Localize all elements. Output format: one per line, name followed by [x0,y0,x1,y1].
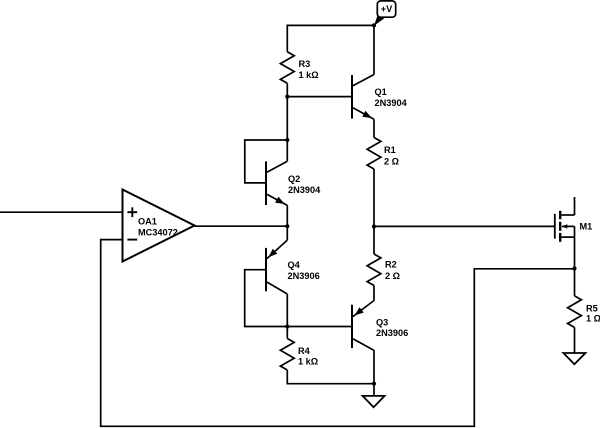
wire R5 bottom to ground symbol [574,327,576,353]
wire top rail from +V node to R3 [287,25,374,51]
svg-text:2N3904: 2N3904 [288,185,321,195]
svg-text:R1: R1 [384,145,396,155]
wire Q2 base-collector loop [245,140,287,183]
wire node D to R5 [574,269,576,296]
resistor R4 1 kOhm [280,339,318,371]
wire input to op-amp + [0,211,123,213]
wire gate node to R2 top [373,227,375,255]
wire node OUT down to Q4 emitter [286,226,288,240]
resistor R5 1 Ohm [568,296,600,328]
wire R1 bottom to gate node [373,169,375,227]
transistor Q2 2N3904 NPN diode-connected [266,161,321,205]
resistor R3 1 kOhm [280,52,318,84]
svg-text:M1: M1 [580,221,593,231]
svg-text:R3: R3 [299,59,311,69]
gate node junction dot [372,224,376,228]
wire Q4 collector down to node C [286,294,288,327]
svg-text:2 Ω: 2 Ω [384,157,399,167]
svg-text:Q3: Q3 [376,318,388,328]
svg-text:1 Ω: 1 Ω [586,314,600,324]
wire M1 drain stub [574,197,576,215]
wire node A to Q1 base [287,96,352,98]
+V supply flag [374,1,396,26]
wire node C to Q3 base [287,326,352,328]
svg-text:2N3906: 2N3906 [376,328,408,338]
ground symbol under Q3 [363,396,385,407]
wire node C to R4 top [286,327,288,339]
MOSFET M1 NMOS [555,211,592,242]
wire R4 bottom to ground node [287,370,374,384]
node C junction dot [285,324,289,328]
wire Q4 base-collector loop to node C [245,270,288,327]
svg-text:Q4: Q4 [288,260,301,270]
svg-text:+V: +V [381,4,393,14]
node OUT junction dot [285,224,289,228]
svg-text:R4: R4 [298,346,311,356]
svg-text:Q1: Q1 [375,87,387,97]
node D junction dot [572,266,576,270]
wire Q1 collector up to +V node [373,25,375,74]
transistor Q3 2N3906 PNP [352,301,408,351]
node A junction dot [285,95,289,99]
svg-text:1 kΩ: 1 kΩ [299,70,319,80]
wire ground node to ground symbol [373,384,375,396]
wire M1 source down to node D [574,226,576,268]
wire Q1 emitter down to R1 [373,119,375,137]
node B junction dot [285,138,289,142]
svg-text:2N3904: 2N3904 [375,98,408,108]
ground symbol under R5 [563,353,585,364]
svg-text:1 kΩ: 1 kΩ [298,357,318,367]
resistor R2 2 Ohm [367,254,400,286]
svg-text:R5: R5 [586,303,598,313]
wire R3 bottom to node A [286,83,288,96]
resistor R1 2 Ohm [367,138,399,170]
op-amp U1 OA1 MC34072 [123,190,195,262]
svg-text:MC34072: MC34072 [138,227,178,237]
svg-text:2N3906: 2N3906 [288,271,320,281]
wire node A down to Q2 collector node [286,97,288,140]
wire Q3 collector down to ground node [373,350,375,383]
node +V junction dot [372,23,376,27]
ground node junction dot [372,382,376,386]
wire Q2 emitter down to node OUT [286,205,288,226]
wire op-amp output to node OUT [195,225,288,227]
svg-text:R2: R2 [385,260,397,270]
wire feedback: op-amp minus input, down, across bottom, up to M1 source node [101,240,575,427]
wire Q2 collector to node B [286,140,288,161]
svg-text:OA1: OA1 [138,216,157,226]
wire R2 bottom to Q3 emitter [373,286,375,301]
transistor Q4 2N3906 PNP diode-connected [266,240,320,294]
transistor Q1 2N3904 NPN [352,75,408,120]
wire gate node to M1 gate [374,225,555,227]
svg-text:Q2: Q2 [288,174,300,184]
svg-text:2 Ω: 2 Ω [385,271,400,281]
